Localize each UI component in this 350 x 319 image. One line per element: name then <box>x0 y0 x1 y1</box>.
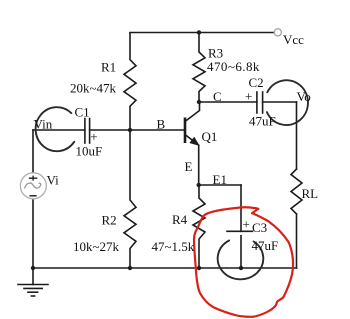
capacitor C1 left plate <box>84 119 86 144</box>
svg-text:Q1: Q1 <box>202 129 218 144</box>
ground symbol <box>18 268 48 296</box>
svg-text:Vi: Vi <box>47 173 60 188</box>
source Vi sine squiggle <box>25 183 41 188</box>
transistor Q1 emitter arrowhead <box>190 138 199 146</box>
source Vi minus mark <box>30 195 37 197</box>
capacitor C2 left plate <box>256 92 258 113</box>
capacitor C2 right plate <box>262 92 264 113</box>
Vcc terminal circle <box>274 29 281 36</box>
svg-text:R4: R4 <box>172 212 188 227</box>
resistor R1 <box>124 33 136 130</box>
resistor R3 <box>193 33 205 103</box>
svg-text:C3: C3 <box>252 220 267 235</box>
junction node dot: node B <box>128 128 132 132</box>
junction node dot: node C <box>197 100 201 104</box>
wire: emitter down to node E1 <box>198 145 200 185</box>
wire: C3 bottom lead to ground bus <box>240 236 242 268</box>
wire: left rail from Vi source down to ground bus <box>32 199 34 268</box>
svg-text:E: E <box>185 159 193 174</box>
svg-text:RL: RL <box>302 186 319 201</box>
svg-text:47~1.5k: 47~1.5k <box>152 239 195 254</box>
svg-text:47uF: 47uF <box>249 114 276 129</box>
svg-text:Vin: Vin <box>34 117 53 132</box>
resistor R2 <box>124 130 136 268</box>
wire: top rail from R1 top to Vcc terminal <box>130 32 274 34</box>
svg-text:B: B <box>157 117 166 132</box>
wire: RL bottom to ground bus <box>296 214 298 268</box>
wire: C2 right plate to output corner <box>263 101 297 103</box>
svg-text:C: C <box>213 89 222 104</box>
svg-text:C1: C1 <box>75 105 90 120</box>
transistor Q1 emitter lead <box>185 135 193 141</box>
svg-text:E1: E1 <box>213 172 227 187</box>
svg-text:Vo: Vo <box>297 89 311 104</box>
wire: Vin input corner to C1 left plate <box>33 129 85 131</box>
junction node dot: node E1 <box>197 183 201 187</box>
annotation circle around C3 bottom <box>218 241 264 280</box>
wire: left rail from Vin corner down to Vi source <box>32 130 34 173</box>
svg-text:+: + <box>245 89 252 104</box>
transistor Q1 base bar <box>184 118 187 144</box>
svg-text:+: + <box>90 129 97 144</box>
svg-text:Vcc: Vcc <box>283 32 304 47</box>
junction node dot: bus left / ground <box>31 266 35 270</box>
svg-text:10k~27k: 10k~27k <box>73 239 120 254</box>
source Vi circle <box>20 173 46 199</box>
svg-text:R2: R2 <box>102 213 117 228</box>
capacitor C1 right plate <box>89 119 91 144</box>
annotation circle around Vin/C1 <box>36 107 75 151</box>
source Vi plus mark <box>29 176 38 181</box>
capacitor C3 top plate <box>227 230 253 232</box>
svg-text:+: + <box>243 217 250 232</box>
junction node dot: bus C3 <box>239 266 243 270</box>
resistor RL <box>291 169 302 214</box>
junction node dot: bus R4 <box>197 266 201 270</box>
svg-text:470~6.8k: 470~6.8k <box>207 59 260 74</box>
wire: C3 top lead <box>240 185 242 231</box>
red hand-drawn circle around C3 / R4 area <box>194 207 293 317</box>
svg-text:20k~47k: 20k~47k <box>70 81 117 96</box>
annotation circle around Vo <box>267 80 308 125</box>
wire: C1 to base node B <box>90 129 185 131</box>
wire: node E1 to C3 branch <box>199 184 241 186</box>
junction node dot: bus R2 <box>128 266 132 270</box>
transistor Q1 collector lead <box>185 102 200 122</box>
wire: output rail down to RL <box>296 102 298 169</box>
wire: C node to C2 left plate <box>199 101 257 103</box>
junction node dot: top rail / R3 <box>197 30 201 34</box>
svg-text:47uF: 47uF <box>252 238 279 253</box>
svg-text:R1: R1 <box>101 60 116 75</box>
svg-text:10uF: 10uF <box>76 144 103 159</box>
resistor R4 <box>193 185 205 268</box>
wire: bottom ground bus <box>33 267 297 269</box>
